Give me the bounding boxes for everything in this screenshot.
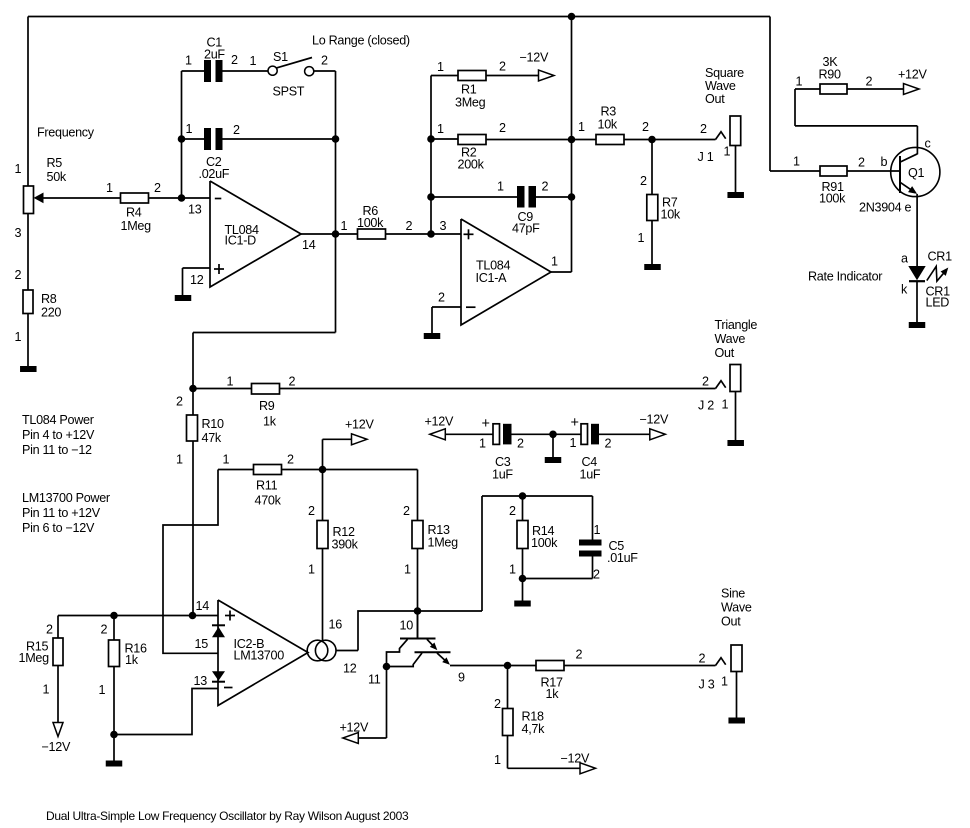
svg-text:1: 1: [578, 120, 585, 134]
svg-text:2: 2: [593, 568, 600, 582]
svg-text:J 2: J 2: [698, 399, 714, 413]
svg-text:2: 2: [700, 122, 707, 136]
svg-text:CR1: CR1: [928, 250, 953, 264]
svg-text:R11: R11: [256, 479, 278, 493]
svg-text:Pin 4 to +12V: Pin 4 to +12V: [22, 428, 95, 442]
svg-text:LED: LED: [926, 296, 950, 310]
svg-text:+: +: [482, 416, 490, 432]
svg-text:2: 2: [289, 375, 296, 389]
svg-text:−12V: −12V: [520, 51, 549, 65]
svg-text:2: 2: [321, 54, 328, 68]
svg-text:16: 16: [329, 618, 343, 632]
svg-text:1: 1: [308, 563, 315, 577]
svg-text:R3: R3: [601, 105, 617, 119]
svg-text:2: 2: [699, 652, 706, 666]
svg-text:2: 2: [231, 53, 238, 67]
svg-text:R10: R10: [202, 417, 224, 431]
svg-text:2uF: 2uF: [204, 48, 225, 62]
svg-text:1: 1: [497, 180, 504, 194]
svg-text:3Meg: 3Meg: [455, 96, 486, 110]
svg-text:1: 1: [724, 145, 731, 159]
svg-text:2: 2: [154, 181, 161, 195]
svg-text:Dual Ultra-Simple Low Frequenc: Dual Ultra-Simple Low Frequency Oscillat…: [46, 809, 409, 823]
svg-text:−12V: −12V: [640, 413, 669, 427]
svg-text:k: k: [901, 283, 908, 297]
svg-text:SPST: SPST: [273, 85, 305, 99]
svg-text:100k: 100k: [357, 216, 384, 230]
svg-text:1: 1: [341, 219, 348, 233]
svg-text:Triangle: Triangle: [715, 318, 758, 332]
svg-text:+12V: +12V: [345, 418, 374, 432]
svg-text:50k: 50k: [47, 170, 67, 184]
svg-text:3: 3: [15, 226, 22, 240]
svg-text:1: 1: [793, 155, 800, 169]
svg-text:470k: 470k: [255, 494, 282, 508]
svg-text:1: 1: [99, 683, 106, 697]
svg-text:1: 1: [106, 181, 113, 195]
svg-text:R8: R8: [41, 292, 57, 306]
svg-text:14: 14: [302, 238, 316, 252]
svg-text:1uF: 1uF: [492, 468, 513, 482]
svg-text:+: +: [571, 415, 579, 431]
svg-text:1: 1: [227, 375, 234, 389]
svg-text:47pF: 47pF: [512, 222, 540, 236]
svg-text:S1: S1: [273, 50, 288, 64]
svg-text:2: 2: [494, 697, 501, 711]
svg-text:Wave: Wave: [715, 332, 746, 346]
svg-text:2: 2: [101, 623, 108, 637]
svg-text:1: 1: [509, 563, 516, 577]
svg-text:IC1-A: IC1-A: [476, 271, 508, 285]
svg-text:15: 15: [195, 637, 209, 651]
svg-text:Pin 11 to −12: Pin 11 to −12: [22, 443, 92, 457]
svg-text:R4: R4: [126, 206, 142, 220]
svg-text:R1: R1: [461, 83, 477, 97]
svg-text:Lo Range (closed): Lo Range (closed): [312, 34, 410, 48]
svg-text:c: c: [925, 137, 931, 151]
svg-text:Square: Square: [705, 66, 744, 80]
svg-text:R90: R90: [819, 68, 841, 82]
svg-text:2: 2: [517, 437, 524, 451]
svg-text:100k: 100k: [531, 536, 558, 550]
svg-text:2: 2: [702, 375, 709, 389]
svg-text:12: 12: [190, 273, 204, 287]
svg-text:1: 1: [186, 122, 193, 136]
svg-text:11: 11: [368, 673, 381, 687]
svg-text:2: 2: [499, 121, 506, 135]
svg-text:e: e: [905, 201, 912, 215]
svg-text:2: 2: [576, 648, 583, 662]
svg-text:2: 2: [640, 174, 647, 188]
svg-text:2: 2: [438, 291, 445, 305]
svg-text:1k: 1k: [125, 653, 139, 667]
svg-text:J 1: J 1: [698, 150, 714, 164]
svg-text:1: 1: [796, 75, 803, 89]
svg-text:220: 220: [41, 306, 61, 320]
svg-text:1uF: 1uF: [580, 468, 601, 482]
svg-text:+12V: +12V: [898, 68, 927, 82]
svg-text:2: 2: [499, 60, 506, 74]
svg-text:100k: 100k: [819, 192, 846, 206]
svg-text:Wave: Wave: [721, 601, 752, 615]
svg-text:2: 2: [15, 268, 22, 282]
svg-text:1: 1: [638, 231, 645, 245]
svg-text:2: 2: [509, 504, 516, 518]
svg-text:1Meg: 1Meg: [121, 219, 152, 233]
svg-text:2: 2: [233, 123, 240, 137]
svg-text:2: 2: [642, 120, 649, 134]
svg-text:Frequency: Frequency: [37, 126, 95, 140]
svg-text:1: 1: [437, 122, 444, 136]
svg-text:12: 12: [343, 662, 357, 676]
svg-text:R5: R5: [47, 156, 63, 170]
svg-text:a: a: [901, 252, 908, 266]
svg-text:.02uF: .02uF: [199, 167, 230, 181]
svg-text:1k: 1k: [546, 687, 560, 701]
svg-text:1: 1: [494, 753, 501, 767]
svg-text:2: 2: [287, 453, 294, 467]
svg-text:10: 10: [400, 619, 414, 633]
svg-text:Q1: Q1: [908, 166, 924, 180]
svg-text:13: 13: [194, 674, 208, 688]
svg-text:2: 2: [46, 623, 53, 637]
svg-text:2: 2: [866, 75, 873, 89]
svg-text:2N3904: 2N3904: [859, 201, 902, 215]
svg-text:1: 1: [721, 675, 728, 689]
svg-text:2: 2: [406, 219, 413, 233]
svg-text:1: 1: [594, 523, 601, 537]
svg-text:R9: R9: [259, 399, 275, 413]
svg-text:10k: 10k: [598, 118, 618, 132]
svg-text:1: 1: [722, 398, 729, 412]
svg-text:1k: 1k: [263, 415, 277, 429]
svg-text:4,7k: 4,7k: [522, 722, 546, 736]
svg-text:TL084 Power: TL084 Power: [22, 413, 94, 427]
svg-text:390k: 390k: [332, 538, 359, 552]
svg-text:.01uF: .01uF: [607, 551, 638, 565]
svg-text:+12V: +12V: [425, 415, 454, 429]
svg-text:1: 1: [185, 54, 192, 68]
svg-text:2: 2: [542, 180, 549, 194]
svg-text:1: 1: [437, 60, 444, 74]
svg-text:1: 1: [570, 436, 577, 450]
svg-text:Out: Out: [705, 92, 725, 106]
svg-text:2: 2: [858, 156, 865, 170]
svg-text:Pin 6 to −12V: Pin 6 to −12V: [22, 521, 95, 535]
svg-text:2: 2: [176, 395, 183, 409]
svg-text:2: 2: [605, 437, 612, 451]
svg-text:1: 1: [15, 162, 22, 176]
svg-text:IC1-D: IC1-D: [225, 234, 257, 248]
svg-text:47k: 47k: [202, 431, 222, 445]
svg-text:Sine: Sine: [721, 587, 745, 601]
svg-text:−12V: −12V: [42, 740, 71, 754]
svg-text:10k: 10k: [661, 208, 681, 222]
svg-text:Pin 11 to +12V: Pin 11 to +12V: [22, 506, 101, 520]
svg-text:2: 2: [403, 504, 410, 518]
svg-text:2: 2: [308, 504, 315, 518]
svg-text:1: 1: [223, 453, 230, 467]
svg-text:1: 1: [551, 255, 558, 269]
svg-text:1: 1: [15, 330, 22, 344]
svg-text:1Meg: 1Meg: [428, 536, 459, 550]
svg-text:1: 1: [176, 453, 183, 467]
svg-text:1: 1: [479, 437, 486, 451]
svg-text:1: 1: [250, 54, 257, 68]
svg-text:9: 9: [458, 671, 465, 685]
svg-text:Wave: Wave: [705, 79, 736, 93]
svg-text:3: 3: [440, 219, 447, 233]
svg-text:Out: Out: [721, 615, 741, 629]
svg-text:200k: 200k: [458, 158, 485, 172]
svg-text:b: b: [881, 155, 888, 169]
svg-text:1: 1: [43, 683, 50, 697]
svg-text:1: 1: [404, 563, 411, 577]
svg-text:−12V: −12V: [561, 752, 590, 766]
svg-text:J 3: J 3: [699, 678, 715, 692]
svg-text:LM13700 Power: LM13700 Power: [22, 491, 110, 505]
svg-text:14: 14: [196, 599, 210, 613]
svg-text:Rate Indicator: Rate Indicator: [808, 270, 882, 284]
svg-text:1Meg: 1Meg: [19, 651, 50, 665]
svg-text:13: 13: [188, 203, 202, 217]
svg-text:+12V: +12V: [340, 721, 369, 735]
svg-text:LM13700: LM13700: [234, 649, 285, 663]
svg-text:Out: Out: [715, 346, 735, 360]
